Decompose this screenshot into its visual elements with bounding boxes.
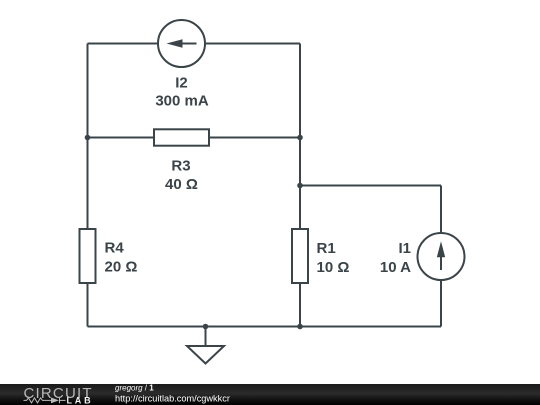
current source I2 circle	[158, 20, 205, 67]
svg-text:I2: I2	[175, 75, 188, 92]
wire left branch (through R4)	[87, 44, 89, 327]
svg-text:http://circuitlab.com/cgwkkcr: http://circuitlab.com/cgwkkcr	[115, 394, 230, 404]
svg-text:R4: R4	[105, 240, 125, 257]
wire bottom net	[88, 326, 442, 328]
CircuitLab logo resistor zigzag and diode	[24, 398, 66, 404]
node junction at ground	[203, 324, 209, 330]
resistor R1 body	[292, 229, 308, 283]
svg-text:300 mA: 300 mA	[155, 93, 209, 110]
svg-text:R3: R3	[171, 158, 190, 175]
current source I1 arrow (points up)	[437, 241, 445, 270]
svg-text:I1: I1	[398, 240, 411, 257]
wire I1 branch vertical	[440, 186, 442, 327]
svg-text:40 Ω: 40 Ω	[165, 176, 198, 193]
svg-text:20 Ω: 20 Ω	[105, 259, 138, 276]
node junction at R3 right	[297, 135, 303, 141]
svg-text:10 Ω: 10 Ω	[317, 259, 350, 276]
node junction at R3 left	[85, 135, 91, 141]
ground stub	[205, 327, 207, 346]
current source I1 circle	[418, 233, 465, 280]
resistor R4 body	[80, 229, 96, 283]
current source I2 arrow (points left)	[167, 39, 197, 48]
svg-text:LAB: LAB	[67, 395, 94, 405]
svg-text:R1: R1	[317, 240, 336, 257]
wire node B to I1 branch	[300, 185, 441, 187]
wire R3 net	[88, 137, 301, 139]
svg-text:gregorg / 1: gregorg / 1	[115, 384, 154, 393]
node junction at bottom of R1	[297, 324, 303, 330]
svg-text:10 A: 10 A	[380, 259, 411, 276]
CircuitLab logo diode triangle	[51, 398, 59, 404]
wire right branch (through R1)	[299, 44, 301, 327]
wire top net (I2 row)	[88, 43, 301, 45]
node junction at I1 branch tap	[297, 183, 303, 189]
resistor R3 body	[154, 129, 209, 145]
ground triangle	[187, 346, 224, 364]
